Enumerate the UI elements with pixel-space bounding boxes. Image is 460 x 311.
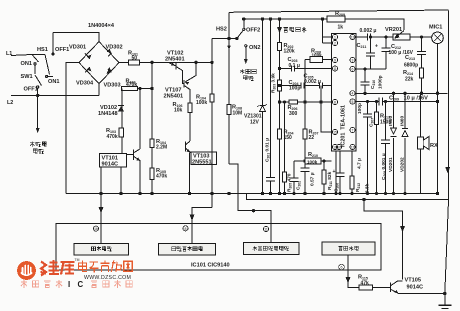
svg-text:11: 11	[333, 67, 337, 71]
pin 8 block	[183, 226, 188, 231]
wire VT105 collector feed	[364, 200, 403, 280]
resistor R103	[119, 128, 123, 137]
resistor R210 100k	[305, 158, 321, 164]
wire R202 branch x279.5	[279, 19, 281, 194]
svg-text:IC101 CIC9140: IC101 CIC9140	[191, 263, 230, 269]
diode VD201 IN60	[391, 128, 397, 134]
resistor R104 2.2M	[150, 139, 154, 148]
capacitor C205	[320, 83, 323, 89]
wire VT107 emitter from rail	[185, 62, 196, 82]
label to-ringer-circuit (Chinese)	[30, 142, 47, 154]
svg-text:100k: 100k	[307, 159, 318, 164]
svg-text:6800p: 6800p	[404, 63, 418, 69]
pin 11 block	[263, 226, 268, 231]
wire L1 lead	[11, 55, 32, 56]
svg-text:22k: 22k	[405, 77, 414, 83]
svg-text:1: 1	[334, 35, 336, 39]
wire top supply rail	[244, 19, 405, 30]
svg-text:15: 15	[333, 130, 337, 134]
switch HS1	[45, 55, 50, 75]
watermark slogan pink glyphs	[21, 280, 133, 289]
transistor VT107	[183, 80, 185, 88]
wire x211 vertical	[211, 39, 213, 208]
wire R208 line to pin9	[305, 59, 332, 61]
svg-text:C211: C211	[357, 43, 367, 49]
capacitor C213 6800p	[417, 52, 426, 55]
svg-text:10k: 10k	[174, 108, 183, 114]
svg-text:100p: 100p	[289, 86, 300, 92]
svg-text:150k: 150k	[380, 120, 391, 126]
capacitor C204	[301, 83, 304, 89]
diode VD303	[107, 67, 112, 74]
node R102/x152	[151, 87, 153, 89]
svg-text:7: 7	[352, 128, 354, 132]
pin 2	[332, 40, 337, 45]
svg-text:VD304: VD304	[76, 81, 94, 87]
pin 16 block	[93, 226, 98, 231]
svg-text:R203 3.9k: R203 3.9k	[271, 73, 277, 93]
wire R108 branch	[228, 39, 230, 165]
svg-text:R210: R210	[308, 152, 318, 158]
resistor R105 470k	[150, 168, 154, 180]
capacitor C208 0.001	[381, 140, 390, 144]
svg-text:OFF2: OFF2	[246, 28, 260, 34]
bridge rectifier outline	[79, 42, 119, 84]
svg-text:100p: 100p	[357, 103, 363, 114]
resistor R108 10M	[227, 105, 231, 115]
pin 4	[350, 91, 355, 96]
op-amp U1 IC201 TEA-1061 box	[332, 34, 357, 152]
svg-text:+: +	[375, 44, 378, 50]
wire mute control to VT105 base	[348, 255, 359, 288]
wire R210 line	[294, 160, 332, 162]
svg-text:C210: C210	[370, 80, 376, 89]
svg-text:150: 150	[284, 135, 293, 141]
label start-up circuit (Chinese)	[92, 246, 112, 251]
wire HS2 pole feed	[212, 38, 236, 40]
svg-text:IC201 TEA-1061: IC201 TEA-1061	[341, 105, 347, 147]
svg-text:4.7 μ: 4.7 μ	[357, 158, 363, 169]
capacitor C209	[379, 98, 383, 106]
wire L1 to HS1	[32, 54, 45, 56]
pin 9	[332, 57, 337, 62]
svg-text:C: C	[78, 280, 84, 289]
wire HS2 top to border	[228, 12, 230, 38]
speaker RX	[418, 137, 424, 149]
svg-text:R209: R209	[335, 11, 345, 17]
capacitor C207 100p	[363, 114, 372, 117]
diode VD301	[87, 55, 92, 60]
resistor R213 150k	[374, 112, 378, 125]
watermark WEIKU brand glyphs	[41, 260, 75, 276]
svg-text:6: 6	[352, 67, 354, 71]
svg-text:300: 300	[289, 111, 298, 117]
wire zener branch	[262, 19, 264, 194]
svg-text:VT105: VT105	[405, 278, 421, 284]
capacitor C-0.002 series	[368, 34, 371, 41]
svg-text:10: 10	[337, 145, 341, 149]
svg-text:6: 6	[341, 265, 343, 269]
node on R101 rail	[151, 61, 153, 63]
svg-text:100k: 100k	[196, 100, 207, 106]
IC201 pin circles	[332, 34, 355, 149]
wire jog to pin11	[229, 164, 271, 244]
wire VT107 collector / R106 chain	[185, 86, 191, 141]
svg-text:1000p: 1000p	[378, 75, 384, 89]
svg-text:MIC1: MIC1	[429, 25, 442, 31]
pin 16	[332, 144, 337, 149]
svg-text:RX: RX	[430, 143, 438, 149]
wire x305 vertical	[304, 60, 306, 194]
wire VT105 emitter to ground	[399, 294, 445, 306]
svg-text:+: +	[333, 169, 336, 175]
wire bridge left to left box edge	[66, 63, 79, 194]
resistor R203 3.9k	[277, 80, 281, 91]
wire pin1 feed	[323, 19, 332, 43]
wire R206 line to pin8	[280, 101, 332, 103]
svg-text:HS2: HS2	[216, 27, 227, 33]
wire pin16 feed from VT101 stage	[100, 167, 102, 244]
svg-text:VD302: VD302	[106, 45, 123, 51]
diode VD102	[118, 106, 124, 112]
svg-text:R212: R212	[355, 183, 361, 192]
svg-text:16: 16	[94, 227, 98, 231]
capacitor C206 electrolytic	[336, 173, 345, 177]
wire VD202 drop	[404, 93, 406, 193]
transistor VT101	[134, 149, 141, 161]
svg-text:0.1 μ: 0.1 μ	[289, 63, 300, 69]
node L2/ringer junction	[37, 94, 39, 96]
svg-text:C207: C207	[369, 118, 375, 127]
wire L2 line	[11, 94, 99, 96]
potentiometer VR201	[393, 34, 410, 40]
box mute control	[322, 242, 375, 255]
wire arrow to ringer circuit	[37, 95, 39, 130]
svg-text:IN60: IN60	[400, 116, 406, 126]
svg-text:50: 50	[132, 55, 138, 61]
transistor VT102	[175, 63, 177, 70]
svg-text:470k: 470k	[107, 134, 118, 140]
resistor R101	[129, 60, 140, 65]
wire VD201 drop	[393, 93, 395, 193]
svg-text:C208 0.001 μ: C208 0.001 μ	[381, 153, 387, 180]
wire pin8 feed jog	[192, 208, 212, 244]
svg-text:OFF1: OFF1	[55, 47, 69, 53]
wire R205 drop	[284, 102, 286, 194]
wire C203 line to pin11	[280, 68, 332, 70]
wire right border	[445, 11, 449, 294]
svg-text:470k: 470k	[126, 82, 137, 88]
wire pin6 line	[356, 68, 386, 70]
pin 8	[332, 99, 337, 104]
svg-text:ON1: ON1	[48, 79, 60, 85]
wire VT103 emitter to bus	[189, 153, 191, 194]
svg-text:16: 16	[333, 145, 337, 149]
switch HS2	[236, 37, 238, 39]
svg-text:12V: 12V	[250, 120, 260, 126]
pin 15	[332, 129, 337, 134]
wire ON2 arrow to handsfree	[245, 48, 247, 62]
label line on-off control (Chinese)	[172, 246, 203, 251]
resistor R209 1k	[327, 16, 345, 22]
pin 7	[350, 127, 355, 132]
wire bridge right / R101 rail	[119, 61, 212, 63]
label speech-signal (Chinese)	[284, 27, 307, 33]
svg-text:L1: L1	[6, 51, 12, 57]
wire R213 drop	[376, 102, 378, 194]
wire x152 vertical	[151, 62, 153, 193]
svg-text:1k: 1k	[338, 25, 344, 31]
wire C213/R214 drop	[421, 37, 423, 93]
wire caps line to pin10	[280, 85, 332, 87]
box IC101 CIC9140 main block	[56, 224, 381, 271]
resistor R106 10k	[188, 103, 192, 113]
wire bridge bottom to L2	[98, 84, 100, 96]
switch SW1	[32, 55, 39, 63]
label DTMF dialing circuit (Chinese)	[253, 246, 289, 251]
arrow speech signal	[278, 28, 282, 33]
wire VT101 emitter to bus	[120, 167, 122, 194]
watermark outline text dianzi-shichang-wang	[79, 261, 133, 273]
svg-text:VD201: VD201	[388, 157, 394, 172]
diode VD202 IN60	[402, 131, 408, 137]
wire VT102 collector down	[176, 67, 184, 84]
wire VD102/R103 vertical	[121, 89, 123, 154]
svg-text:13: 13	[351, 35, 355, 39]
capacitor C212 electrolytic	[382, 48, 391, 52]
svg-text:C201 0.01 μ: C201 0.01 μ	[265, 138, 271, 162]
svg-text:11: 11	[264, 227, 268, 231]
transistor VT105	[391, 281, 399, 294]
svg-text:VD303: VD303	[104, 83, 121, 89]
wire HS1 upper contact	[52, 33, 54, 54]
svg-text:VD202: VD202	[400, 157, 406, 172]
svg-text:C202: C202	[296, 181, 302, 190]
wire x321 vertical	[321, 86, 332, 133]
wire C208 drop	[385, 102, 387, 194]
wire R102 line	[138, 88, 153, 90]
wire R211 drop	[323, 161, 325, 194]
svg-text:I: I	[68, 280, 70, 289]
svg-text:0.002 μ: 0.002 μ	[360, 28, 377, 34]
watermark logo circle	[17, 261, 36, 280]
svg-text:8: 8	[334, 100, 336, 104]
svg-text:100 μ /16V: 100 μ /16V	[389, 50, 414, 56]
svg-text:1N4148: 1N4148	[98, 111, 118, 117]
svg-text:5: 5	[352, 100, 354, 104]
svg-text:3: 3	[352, 58, 354, 62]
ground	[438, 304, 451, 306]
wire VT101 collector	[139, 89, 141, 150]
wire main ground bus	[66, 193, 438, 195]
svg-text:L2: L2	[7, 100, 13, 106]
svg-text:SW1: SW1	[21, 74, 33, 80]
label mute control (Chinese)	[339, 246, 359, 251]
svg-text:2: 2	[334, 41, 336, 45]
wire top border	[229, 10, 449, 12]
svg-text:2.2M: 2.2M	[156, 145, 167, 151]
svg-text:1N4004×4: 1N4004×4	[88, 23, 115, 29]
wire C210 drop	[364, 69, 366, 93]
svg-text:12: 12	[351, 145, 355, 149]
wire C207 drop	[367, 102, 369, 194]
svg-text:8: 8	[185, 227, 187, 231]
wire top-left rail to bridge	[53, 33, 99, 42]
svg-text:22: 22	[309, 135, 315, 141]
pin 3	[350, 57, 355, 62]
resistor R208 100k	[310, 57, 323, 63]
wire pin4 line	[356, 92, 447, 94]
box DTMF dial circuit	[244, 243, 300, 255]
wire right border lower / arrow	[446, 168, 450, 173]
svg-text:2N5551: 2N5551	[192, 160, 212, 166]
resistor R115 47k	[359, 285, 373, 290]
pin 11	[332, 66, 337, 71]
resistor R207 22	[303, 129, 307, 139]
svg-text:4: 4	[352, 92, 354, 96]
svg-text:100k: 100k	[312, 52, 323, 57]
wire C211 drop	[370, 37, 372, 69]
microphone MIC1	[432, 32, 444, 44]
svg-text:10M: 10M	[233, 111, 243, 117]
resistor R211 82k	[322, 170, 326, 184]
wire second bus	[247, 194, 448, 200]
wire MIC down to bus	[437, 44, 439, 194]
diode VD304	[87, 67, 92, 72]
svg-text:ON1: ON1	[21, 61, 33, 67]
svg-text:2N5401: 2N5401	[165, 57, 185, 63]
resistor R205 470	[282, 172, 286, 182]
box VT103 label	[191, 152, 217, 165]
capacitor C211	[366, 53, 375, 56]
svg-text:VD301: VD301	[69, 45, 86, 51]
svg-text:0.002 μ: 0.002 μ	[304, 79, 321, 85]
capacitor C210 1000p	[361, 82, 370, 85]
capacitor C203	[292, 66, 295, 72]
svg-text:C209 10 μ /16V: C209 10 μ /16V	[389, 96, 428, 102]
pin 10	[336, 144, 341, 149]
pin 13	[350, 34, 355, 39]
wire C202 drop	[293, 161, 295, 194]
pin 5	[350, 99, 355, 104]
svg-text:WWW.DZSC.COM: WWW.DZSC.COM	[84, 275, 131, 281]
wire C212 drop	[385, 37, 387, 69]
resistor R204 150	[277, 129, 281, 139]
svg-text:9014C: 9014C	[102, 162, 118, 168]
resistor R104b 100k	[210, 94, 214, 102]
capacitor C201	[266, 178, 275, 182]
IC101 block pin circles	[93, 226, 344, 270]
resistor R206 300	[289, 100, 298, 104]
svg-text:C206: C206	[334, 183, 340, 192]
label to-handsfree-circuit (Chinese)	[240, 69, 256, 81]
diode VD302	[107, 49, 112, 54]
box start-up circuit	[74, 244, 129, 255]
svg-text:R214: R214	[403, 70, 413, 76]
transistor VT103	[186, 141, 191, 153]
contact ON2	[245, 45, 247, 47]
pin 6 block	[339, 264, 345, 270]
wire RX drop	[420, 93, 422, 193]
zener VZ1301	[260, 106, 266, 112]
resistor R212	[350, 176, 354, 189]
box VT101 label	[100, 154, 127, 168]
svg-text:2N5401: 2N5401	[164, 94, 184, 100]
svg-text:120k: 120k	[284, 49, 295, 55]
capacitor C-0.57	[301, 168, 310, 172]
resistor R214 22k	[419, 68, 423, 78]
resistor R102	[122, 86, 138, 90]
svg-text:R205 470: R205 470	[287, 173, 293, 192]
svg-text:9014C: 9014C	[407, 285, 423, 291]
pin 12	[350, 144, 355, 149]
wire pin13 line to MIC	[356, 36, 432, 38]
resistor R202 120k	[277, 43, 281, 51]
capacitor C202	[290, 178, 299, 182]
svg-text:470k: 470k	[156, 174, 167, 180]
wire IC bottom pin drops	[336, 151, 352, 194]
svg-text:VR201: VR201	[385, 27, 402, 33]
svg-text:9: 9	[334, 58, 336, 62]
svg-text:47k: 47k	[361, 281, 370, 287]
svg-text:TM: TM	[75, 258, 80, 262]
pin 1	[332, 34, 337, 39]
svg-text:ON2: ON2	[249, 45, 261, 51]
svg-text:3.8k: 3.8k	[365, 183, 371, 193]
svg-text:0.57 μ: 0.57 μ	[310, 172, 316, 186]
pin 6	[350, 66, 355, 71]
wire pin5 line C209	[356, 101, 438, 103]
svg-text:OFF1: OFF1	[24, 87, 38, 93]
svg-text:HS1: HS1	[37, 47, 48, 53]
box line on-off control	[159, 244, 216, 255]
wire C201 branch	[270, 19, 272, 194]
